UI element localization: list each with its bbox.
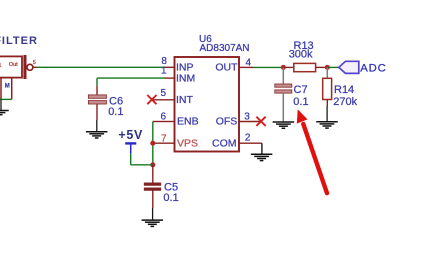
svg-text:INT: INT (176, 94, 194, 106)
svg-text:1: 1 (161, 66, 167, 77)
svg-text:AD8307AN: AD8307AN (200, 43, 250, 54)
svg-text:2: 2 (245, 133, 251, 144)
svg-text:M: M (5, 84, 10, 90)
svg-text:+5V: +5V (118, 128, 143, 142)
svg-text:C7: C7 (294, 84, 308, 96)
svg-text:5: 5 (33, 60, 36, 66)
svg-text:VPS: VPS (177, 137, 198, 149)
svg-text:COM: COM (212, 137, 237, 149)
svg-text:6: 6 (161, 111, 167, 122)
svg-text:Out: Out (9, 62, 18, 68)
svg-text:ADC: ADC (360, 62, 386, 74)
svg-text:ENB: ENB (177, 116, 199, 128)
svg-text:270k: 270k (333, 96, 357, 108)
svg-text:1: 1 (0, 63, 2, 69)
svg-text:0.1: 0.1 (293, 96, 308, 108)
svg-text:5: 5 (161, 88, 167, 99)
svg-text:300k: 300k (289, 49, 313, 61)
svg-text:0.1: 0.1 (108, 106, 123, 118)
svg-text:FILTER: FILTER (0, 35, 38, 47)
svg-text:0.1: 0.1 (163, 192, 178, 204)
svg-text:OFS: OFS (216, 116, 238, 128)
svg-text:INM: INM (176, 72, 195, 84)
svg-text:R14: R14 (334, 84, 354, 96)
svg-text:OUT: OUT (215, 62, 238, 74)
svg-text:7: 7 (161, 133, 167, 144)
svg-text:3: 3 (244, 111, 250, 122)
